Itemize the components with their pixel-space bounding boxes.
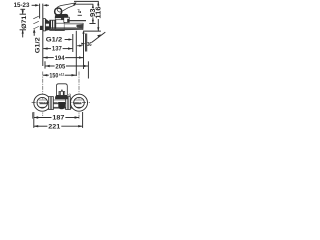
right nut front view [66, 97, 71, 110]
left escutcheon front view [34, 94, 51, 111]
front view centerline vertical right [78, 72, 80, 120]
svg-text:±12: ±12 [59, 71, 65, 76]
extension line bottom right 221 [82, 112, 84, 128]
lever knob side view [55, 8, 62, 15]
extension line x85.7 [85, 34, 87, 52]
extension line x72.8 [72, 34, 74, 52]
dimension 221 [34, 123, 83, 130]
spout bottom dark band [50, 28, 83, 30]
dome front view [55, 95, 68, 99]
wall rough line [39, 4, 41, 19]
pipe stub in wall [40, 26, 43, 30]
small ring right of lever [69, 94, 71, 96]
right escutcheon front view [71, 94, 88, 111]
extension line spout bottom right [84, 30, 101, 32]
wall hatching [33, 16, 39, 29]
small down arrow on box [65, 16, 67, 17]
svg-text:205: 205 [55, 63, 65, 70]
svg-text:187: 187 [52, 115, 65, 122]
left nut front view [49, 97, 54, 110]
wall finished-surface line [42, 4, 44, 66]
extension line bottom left inner [31, 112, 33, 118]
extension line bottom left [33, 112, 35, 128]
front view centerline vertical left [42, 72, 44, 117]
svg-text:36: 36 [87, 42, 92, 48]
svg-text:150: 150 [49, 73, 58, 80]
dimension 205 [45, 61, 88, 78]
aerator front view [58, 102, 65, 109]
dimension 15-23 tails [32, 4, 36, 6]
dome cap side view [55, 14, 69, 18]
up arrow at spout tip bottom [82, 30, 84, 34]
svg-text:Ø71: Ø71 [21, 15, 28, 29]
union nut side view [50, 20, 56, 30]
svg-text:221: 221 [48, 123, 61, 130]
dimension 36 arrows [79, 43, 85, 47]
svg-text:15-23: 15-23 [14, 2, 30, 9]
dimension 15-23 arrows [35, 4, 47, 6]
spout tip dark [77, 24, 84, 28]
dimension 93 [90, 4, 97, 23]
lever tip dark [73, 3, 76, 6]
extension line lever tip [76, 3, 94, 5]
cartridge block side view [55, 18, 63, 20]
extension line spout tip down [83, 34, 85, 70]
svg-text:G1/2: G1/2 [35, 37, 42, 53]
centerline horizontal [32, 102, 90, 104]
extension line x86.8 [86, 34, 88, 52]
extension line spout top tick [89, 23, 95, 25]
G1/2 up pointer [33, 29, 36, 33]
svg-text:G1/2: G1/2 [46, 36, 63, 43]
body tube side view [56, 20, 83, 31]
hose connection box [64, 17, 70, 22]
dimension 187 [34, 115, 79, 122]
G1/2 arrow right [69, 38, 73, 40]
escutcheon side view [43, 19, 50, 31]
body tube front view [39, 100, 83, 108]
spout bottom thin line [50, 26, 76, 28]
extension line lever top [74, 0, 99, 2]
dimension 116 [96, 2, 103, 32]
extension line from body top [69, 20, 86, 22]
leader diagonal for 36 [91, 32, 105, 43]
dimension 137 [43, 46, 72, 53]
dimension 194 [43, 55, 83, 62]
lever front view [56, 84, 67, 96]
dimension 150 +-12 [43, 71, 76, 79]
dimension dia71 vertical [20, 9, 28, 37]
svg-text:137: 137 [52, 46, 62, 53]
svg-text:194: 194 [55, 55, 65, 62]
lever handle side view [57, 3, 76, 12]
extension line x76.3 [75, 31, 77, 76]
svg-text:116: 116 [96, 6, 103, 18]
